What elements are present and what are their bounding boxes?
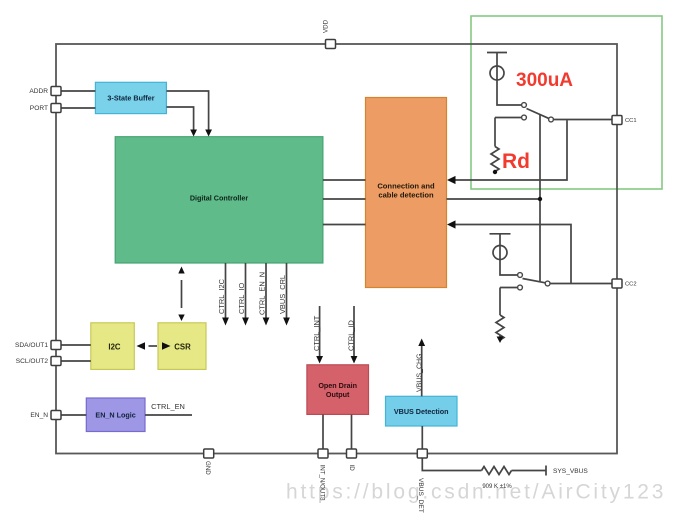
svg-text:CC1: CC1: [625, 118, 637, 124]
svg-text:INT_N/OUT3: INT_N/OUT3: [318, 465, 325, 502]
svg-text:I2C: I2C: [108, 343, 121, 352]
svg-text:VDD: VDD: [323, 19, 330, 33]
svg-text:SDA/OUT1: SDA/OUT1: [15, 342, 48, 349]
svg-text:https://blog.csdn.net/AirCity1: https://blog.csdn.net/AirCity123: [286, 481, 666, 504]
svg-text:ADDR: ADDR: [29, 88, 48, 95]
svg-text:Rd: Rd: [502, 150, 530, 173]
svg-text:ID: ID: [348, 465, 355, 472]
svg-text:VBUS_CRL: VBUS_CRL: [278, 275, 287, 314]
svg-text:VBUS_DET: VBUS_DET: [417, 478, 424, 513]
svg-text:CTRL_EN: CTRL_EN: [151, 402, 185, 411]
svg-text:Connection and: Connection and: [377, 182, 435, 191]
svg-text:cable detection: cable detection: [378, 191, 434, 200]
svg-text:VBUS Detection: VBUS Detection: [394, 407, 449, 416]
svg-text:300uA: 300uA: [516, 70, 573, 91]
svg-text:VBUS_CHG: VBUS_CHG: [417, 353, 424, 392]
svg-text:CTRL_INT: CTRL_INT: [312, 315, 321, 351]
svg-text:CSR: CSR: [174, 343, 191, 352]
svg-text:EN_N: EN_N: [30, 412, 48, 419]
svg-text:CTRL_I2C: CTRL_I2C: [217, 278, 226, 314]
svg-text:EN_N Logic: EN_N Logic: [95, 411, 135, 420]
svg-text:Open Drain: Open Drain: [318, 381, 357, 390]
svg-text:PORT: PORT: [30, 105, 48, 112]
svg-text:GND: GND: [204, 461, 211, 475]
svg-text:Output: Output: [326, 390, 350, 399]
svg-text:909 K ±1%: 909 K ±1%: [482, 484, 512, 490]
svg-text:CTRL_IO: CTRL_IO: [237, 283, 246, 314]
svg-text:CTRL_EN_N: CTRL_EN_N: [257, 272, 266, 315]
svg-text:SCL/OUT2: SCL/OUT2: [16, 358, 49, 365]
svg-text:SYS_VBUS: SYS_VBUS: [553, 468, 588, 475]
svg-text:3-State Buffer: 3-State Buffer: [107, 94, 154, 103]
svg-text:Digital Controller: Digital Controller: [190, 194, 249, 203]
svg-text:CTRL_ID: CTRL_ID: [347, 320, 356, 351]
svg-text:CC2: CC2: [625, 282, 637, 288]
